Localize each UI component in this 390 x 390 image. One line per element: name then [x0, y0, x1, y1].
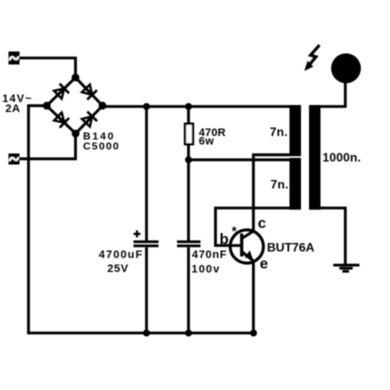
svg-text:4700uF: 4700uF [99, 249, 144, 261]
capacitor C1 plates [134, 240, 159, 247]
transformer T1 primary winding L1 (7n) [290, 105, 302, 156]
wire J1 to bridge top node [20, 58, 76, 78]
node bridge right [99, 102, 107, 110]
svg-text:25V: 25V [107, 263, 128, 275]
node rail bottom / emitter [250, 330, 257, 337]
capacitor C1 4700uF top wire [145, 107, 148, 241]
label 470R 6w [199, 127, 226, 148]
svg-text:1000n.: 1000n. [323, 151, 362, 165]
node rail bottom / C2 [185, 330, 192, 337]
wire secondary top to discharge ball [318, 83, 345, 107]
capacitor C1 plus sign [134, 230, 141, 237]
resistor R1 top wire [187, 107, 190, 125]
terminal J1 (AC input top) [9, 52, 20, 65]
svg-text:C5000: C5000 [83, 140, 120, 152]
svg-text:7n.: 7n. [270, 125, 288, 139]
svg-text:7n.: 7n. [271, 178, 289, 192]
svg-text:*: * [232, 225, 237, 239]
svg-text:e: e [260, 256, 268, 273]
capacitor C2 bottom wire [187, 247, 190, 333]
capacitor C2 plates [177, 240, 201, 247]
label 470nF 100v [192, 249, 228, 276]
resistor R1 bottom wire [187, 144, 190, 160]
node rail / R1 [185, 103, 192, 110]
diode D3 (top-right arm) [81, 84, 97, 100]
label 14V~ 2A [2, 93, 32, 115]
wire node to winding L2 top [189, 158, 291, 161]
label B140 C5000 [83, 131, 120, 153]
label 4700uF 25V [99, 249, 144, 275]
transformer T1 primary winding L2 (7n) [290, 158, 302, 210]
svg-text:BUT76A: BUT76A [267, 241, 315, 255]
emitter wire Q1 to negative rail [252, 262, 255, 334]
discharge ball electrode [331, 53, 361, 83]
node R1 / C2 / winding L2 [185, 156, 192, 163]
wire J2 to bridge bottom node [20, 134, 76, 159]
capacitor C1 bottom wire [145, 247, 148, 333]
node bridge left [43, 102, 51, 110]
terminal J2 (AC input bottom) [9, 154, 20, 165]
bridge rectifier B1 arm wires [47, 78, 103, 134]
diode D4 (bottom-right arm) [81, 112, 97, 128]
diode D1 (top-left arm) [53, 84, 69, 100]
wire bottom negative rail [27, 332, 253, 335]
svg-text:100v: 100v [192, 264, 221, 276]
svg-text:c: c [258, 215, 266, 232]
ground symbol [333, 265, 359, 271]
transformer T1 secondary winding L3 (1000n) [309, 105, 321, 210]
wire winding L2 bottom to base [216, 208, 291, 246]
wire winding L1 bottom to collector [253, 155, 290, 231]
transistor Q1 BUT76A [230, 230, 263, 263]
svg-text:470nF: 470nF [192, 249, 227, 261]
wire secondary bottom to ground [318, 208, 345, 264]
svg-text:b: b [220, 231, 229, 248]
wire bridge left node to negative rail (down left side) [29, 106, 47, 333]
spark lightning symbol [304, 45, 319, 71]
node rail bottom / C1 [143, 330, 150, 337]
node rail / C1 [143, 103, 150, 110]
node bridge bottom [72, 130, 80, 138]
svg-text:2A: 2A [5, 103, 20, 115]
node bridge top [72, 74, 80, 82]
capacitor C2 470nF top wire [187, 160, 190, 241]
wire positive rail [103, 105, 302, 108]
diode D2 (bottom-left arm) [53, 112, 69, 128]
resistor R1 body [185, 124, 193, 145]
svg-text:6w: 6w [199, 136, 215, 148]
